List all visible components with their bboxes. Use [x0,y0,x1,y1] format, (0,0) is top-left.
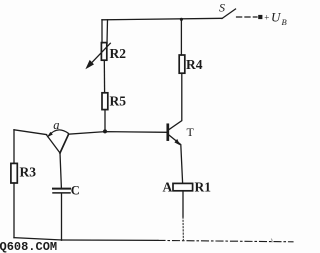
svg-text:a: a [53,118,59,132]
svg-text:R5: R5 [110,94,127,109]
wire: triangle to transistor base [69,132,167,135]
arc annotation over triangle [49,130,68,136]
triangle element (left side) [47,135,60,153]
wire: triangle bottom to capacitor [60,153,61,188]
wire: capacitor to bottom [61,194,63,241]
svg-text:Q608.COM: Q608.COM [0,240,57,253]
wire: bottom rail solid part [62,239,159,241]
faint scan mark right end [271,239,274,242]
svg-text:A: A [163,180,173,195]
capacitor C plates [53,188,70,190]
transistor T base bar [166,125,169,140]
resistor R5 [102,93,108,110]
svg-text:+: + [264,12,269,22]
transistor T emitter lead [169,135,183,183]
label +UB [264,10,287,28]
wire: double lead from rail down to R2 [101,20,103,43]
svg-text:R1: R1 [195,180,212,195]
node dot on rail [180,18,183,21]
wire: R5 down to base node [104,110,106,132]
svg-text:S: S [219,1,225,15]
wire: R1 down solid then faded dotted to rail [182,191,184,217]
svg-text:R3: R3 [20,165,37,180]
switch S blade [222,9,236,19]
thermistor arrow through R2 [91,43,110,63]
resistor R4 [179,55,185,73]
resistor R2 (thermistor body) [101,43,106,61]
emitter arrow [174,139,180,146]
supply terminal node [258,15,262,19]
svg-text:T: T [187,125,195,139]
svg-text:U: U [271,10,282,25]
svg-text:R4: R4 [186,57,203,72]
wire: R3 to bottom [13,183,15,238]
wire: rail down to R4 [180,19,182,55]
resistor R1 [173,183,193,190]
wire: dashed lead to supply terminal [237,16,258,18]
resistor R3 [13,130,15,164]
svg-text:C: C [71,184,80,198]
svg-text:R2: R2 [110,46,127,61]
wire: bottom rail dash-dot part [158,240,293,241]
wire: R2 to R5 [103,60,105,93]
svg-text:B: B [282,17,287,27]
node junction dot at base wire [103,129,107,133]
wire: top supply rail [102,18,222,20]
transistor T collector lead [169,73,182,130]
wire: left horizontal segment to triangle [14,130,47,135]
triangle element (right side) [60,134,69,153]
wire: bottom left segment [14,238,62,240]
